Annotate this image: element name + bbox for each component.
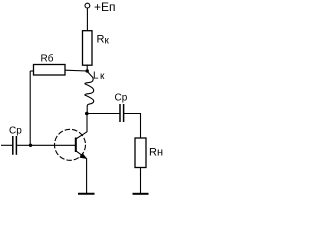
wire Rб left stub [30, 70, 33, 72]
wire node B to output cap [87, 113, 120, 115]
resistor Rк [83, 31, 93, 65]
transistor VT circle [55, 129, 86, 160]
inductor Lк [85, 72, 94, 114]
wire input stub [1, 144, 13, 146]
transistor base bar [75, 138, 77, 153]
svg-text:L: L [93, 71, 99, 82]
wire input cap to node C [16, 144, 30, 146]
wire terminal to Rк [86, 8, 88, 31]
capacitor Ср output [119, 104, 121, 122]
svg-text:+Еп: +Еп [94, 0, 116, 14]
svg-text:Rб: Rб [41, 53, 54, 65]
terminal +Еп [85, 3, 90, 8]
wire Rб right to node A [65, 69, 87, 72]
capacitor Ср input [12, 136, 14, 155]
svg-text:Rк: Rк [97, 34, 110, 47]
node B junction dot [85, 112, 89, 116]
ground right [133, 193, 149, 195]
transistor emitter diagonal [76, 151, 87, 159]
wire collector vertical [86, 114, 88, 133]
svg-text:Ср: Ср [115, 93, 128, 104]
node C junction dot [29, 144, 32, 147]
wire left vertical Rб to input node [29, 71, 31, 145]
svg-text:Rн: Rн [149, 147, 163, 159]
transistor emitter arrow [79, 153, 87, 159]
svg-text:к: к [100, 71, 105, 82]
wire Rк to node A [86, 65, 88, 72]
svg-text:Ср: Ср [9, 126, 22, 137]
resistor Rн [135, 138, 146, 168]
wire emitter vertical [86, 159, 88, 194]
transistor collector diagonal [76, 132, 87, 139]
wire cap to corner down to Rн [124, 114, 141, 139]
resistor Rб [34, 65, 66, 76]
wire node C to base [31, 144, 76, 146]
node A junction dot [86, 69, 89, 72]
wire Rн to ground [140, 168, 142, 194]
ground left [78, 193, 95, 195]
